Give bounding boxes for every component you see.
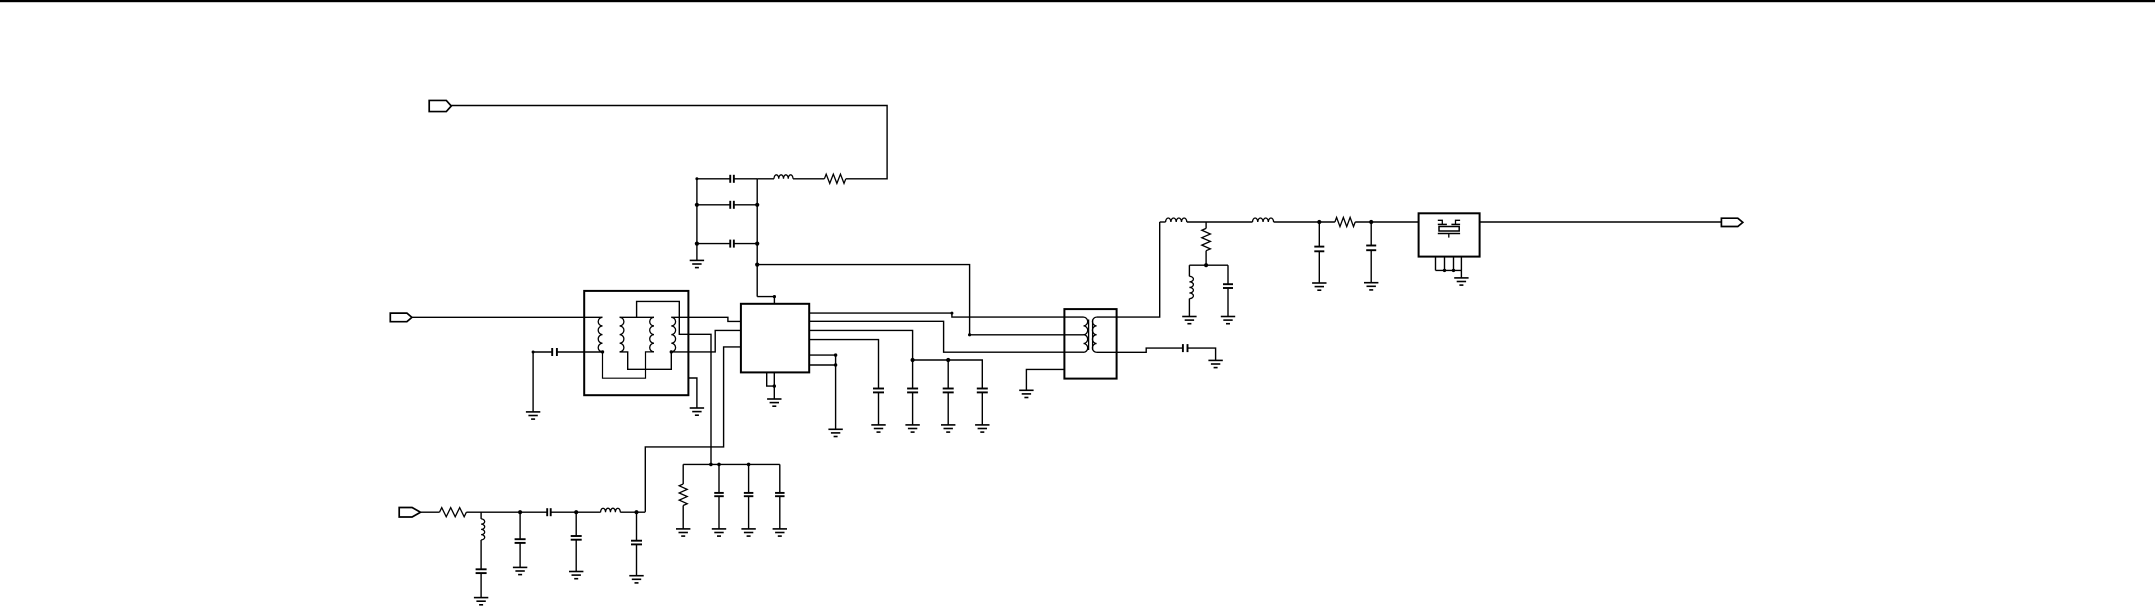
junction	[773, 295, 776, 298]
junction	[1204, 263, 1208, 267]
wire	[533, 351, 552, 353]
junction	[911, 358, 915, 362]
ground	[690, 260, 704, 267]
wire	[1188, 299, 1190, 317]
junction	[755, 203, 759, 207]
wire	[1227, 265, 1229, 284]
inductor L1	[774, 175, 793, 179]
capacitor C14	[476, 569, 487, 597]
wire	[688, 378, 697, 408]
wire	[779, 464, 781, 493]
ground	[871, 425, 885, 432]
wire	[480, 512, 482, 519]
filter U2 box	[1419, 213, 1480, 256]
ground	[629, 576, 643, 583]
junction	[670, 350, 673, 353]
ground	[1364, 283, 1378, 290]
capacitor C5	[907, 360, 918, 425]
wire	[809, 340, 878, 389]
wire	[696, 179, 698, 260]
junction	[1443, 269, 1446, 272]
ground	[526, 412, 540, 419]
wire	[620, 352, 672, 369]
port J2 (left input)	[390, 313, 412, 322]
transformer T2 core	[1089, 320, 1093, 351]
wire	[683, 463, 780, 465]
transformer T1 winding D	[671, 317, 675, 352]
wire	[756, 179, 758, 297]
wire	[620, 511, 645, 513]
wire	[1205, 251, 1207, 266]
capacitor C20	[775, 493, 785, 529]
ground	[828, 429, 842, 436]
ground	[941, 425, 955, 432]
wire	[1160, 221, 1166, 223]
capacitor C12	[1366, 222, 1376, 283]
ground	[1182, 317, 1196, 324]
inductor L2	[1166, 218, 1187, 222]
capacitor C9	[1183, 344, 1188, 352]
capacitor C15	[515, 512, 526, 567]
wire	[1480, 221, 1722, 223]
ground	[1221, 317, 1235, 324]
junction	[1452, 269, 1455, 272]
junction	[532, 351, 535, 354]
capacitor C13	[547, 508, 551, 516]
IC U1	[741, 304, 809, 373]
ground	[474, 598, 488, 605]
wire	[682, 506, 684, 529]
wire	[1097, 348, 1183, 352]
junction	[968, 333, 971, 336]
ground	[513, 567, 527, 574]
wire	[671, 330, 741, 352]
wire	[1188, 265, 1190, 276]
resistor R4	[440, 508, 467, 517]
capacitor C3	[697, 240, 757, 248]
wire	[757, 297, 774, 304]
junction	[834, 353, 837, 356]
junction	[1369, 220, 1373, 224]
port J3 (bottom input)	[399, 508, 420, 518]
filter U2 ground pins	[1436, 257, 1462, 278]
junction	[773, 384, 776, 387]
wire	[1274, 221, 1335, 223]
wire	[557, 351, 603, 353]
capacitor C1	[697, 175, 757, 183]
wire	[1187, 221, 1253, 223]
wire	[773, 372, 775, 398]
junction	[695, 242, 699, 246]
ground	[741, 529, 755, 536]
junction	[634, 510, 638, 514]
ground	[767, 399, 781, 406]
wire	[1097, 222, 1160, 317]
wire	[809, 364, 835, 366]
wire	[480, 540, 482, 569]
resistor R3	[1335, 217, 1355, 226]
ground	[1312, 283, 1326, 290]
ground	[712, 529, 726, 536]
junction	[834, 363, 837, 366]
transformer T2 primary	[1084, 317, 1088, 352]
wire	[620, 316, 654, 318]
wire	[1188, 348, 1216, 360]
junction	[747, 463, 751, 467]
port J1 (top input)	[429, 100, 451, 111]
ground	[690, 408, 704, 415]
wire	[757, 178, 774, 180]
capacitor C10	[1223, 284, 1233, 316]
capacitor C4	[873, 389, 884, 425]
junction	[755, 263, 759, 267]
ground	[569, 572, 583, 579]
wire	[551, 511, 601, 513]
inductor L5	[601, 508, 621, 512]
wire	[913, 360, 983, 389]
wire	[532, 352, 534, 412]
wire	[637, 301, 711, 464]
junction	[946, 358, 950, 362]
wire	[793, 178, 824, 180]
ground	[975, 425, 989, 432]
capacitor C18	[714, 464, 724, 528]
wire	[809, 313, 1083, 317]
wire	[421, 511, 440, 513]
transformer T1 winding A	[598, 317, 602, 352]
capacitor C19	[744, 464, 754, 528]
ground	[1208, 360, 1222, 367]
ground	[773, 529, 787, 536]
port J4 (output)	[1721, 218, 1742, 226]
transformer T2 secondary	[1092, 317, 1096, 352]
inductor L6	[481, 519, 485, 540]
resistor R1	[824, 174, 845, 183]
wire	[809, 321, 1083, 352]
capacitor C2	[697, 201, 757, 209]
junction	[601, 350, 604, 353]
transformer T2 box	[1064, 309, 1116, 379]
ground	[1019, 390, 1033, 397]
junction	[1317, 220, 1321, 224]
junction	[709, 463, 713, 467]
junction	[755, 242, 759, 246]
capacitor C16	[571, 512, 582, 571]
wire	[835, 355, 837, 429]
wire	[451, 106, 887, 179]
transformer T1 winding B	[620, 317, 624, 352]
wire	[757, 265, 1083, 335]
capacitor C7	[977, 389, 988, 425]
wire	[1026, 369, 1064, 390]
capacitor C6	[943, 360, 954, 425]
wire	[1355, 221, 1418, 223]
capacitor C17	[631, 512, 642, 575]
wire	[466, 511, 547, 513]
wire	[809, 330, 912, 360]
junction	[574, 510, 578, 514]
junction	[717, 463, 721, 467]
ground	[676, 529, 690, 536]
wire	[767, 372, 775, 386]
junction	[695, 177, 698, 180]
inductor L4	[1253, 218, 1274, 222]
resistor R5	[682, 464, 684, 484]
resistor R2	[1205, 222, 1207, 228]
filter U2 crystal symbol	[1438, 220, 1460, 237]
ground	[905, 425, 919, 432]
wire	[603, 352, 655, 378]
wire	[671, 317, 741, 321]
junction	[950, 312, 953, 315]
capacitor C11	[1314, 222, 1324, 283]
ground	[1454, 278, 1468, 285]
wire	[1189, 264, 1228, 266]
wire	[809, 354, 835, 356]
wire	[645, 347, 741, 512]
transformer T1 box	[584, 291, 688, 395]
wire	[412, 316, 603, 318]
top border bar	[0, 0, 2155, 2]
junction	[695, 203, 699, 207]
transformer T1 winding C	[650, 317, 654, 352]
junction	[518, 510, 522, 514]
inductor L3	[1189, 276, 1193, 298]
capacitor C8	[552, 348, 557, 356]
